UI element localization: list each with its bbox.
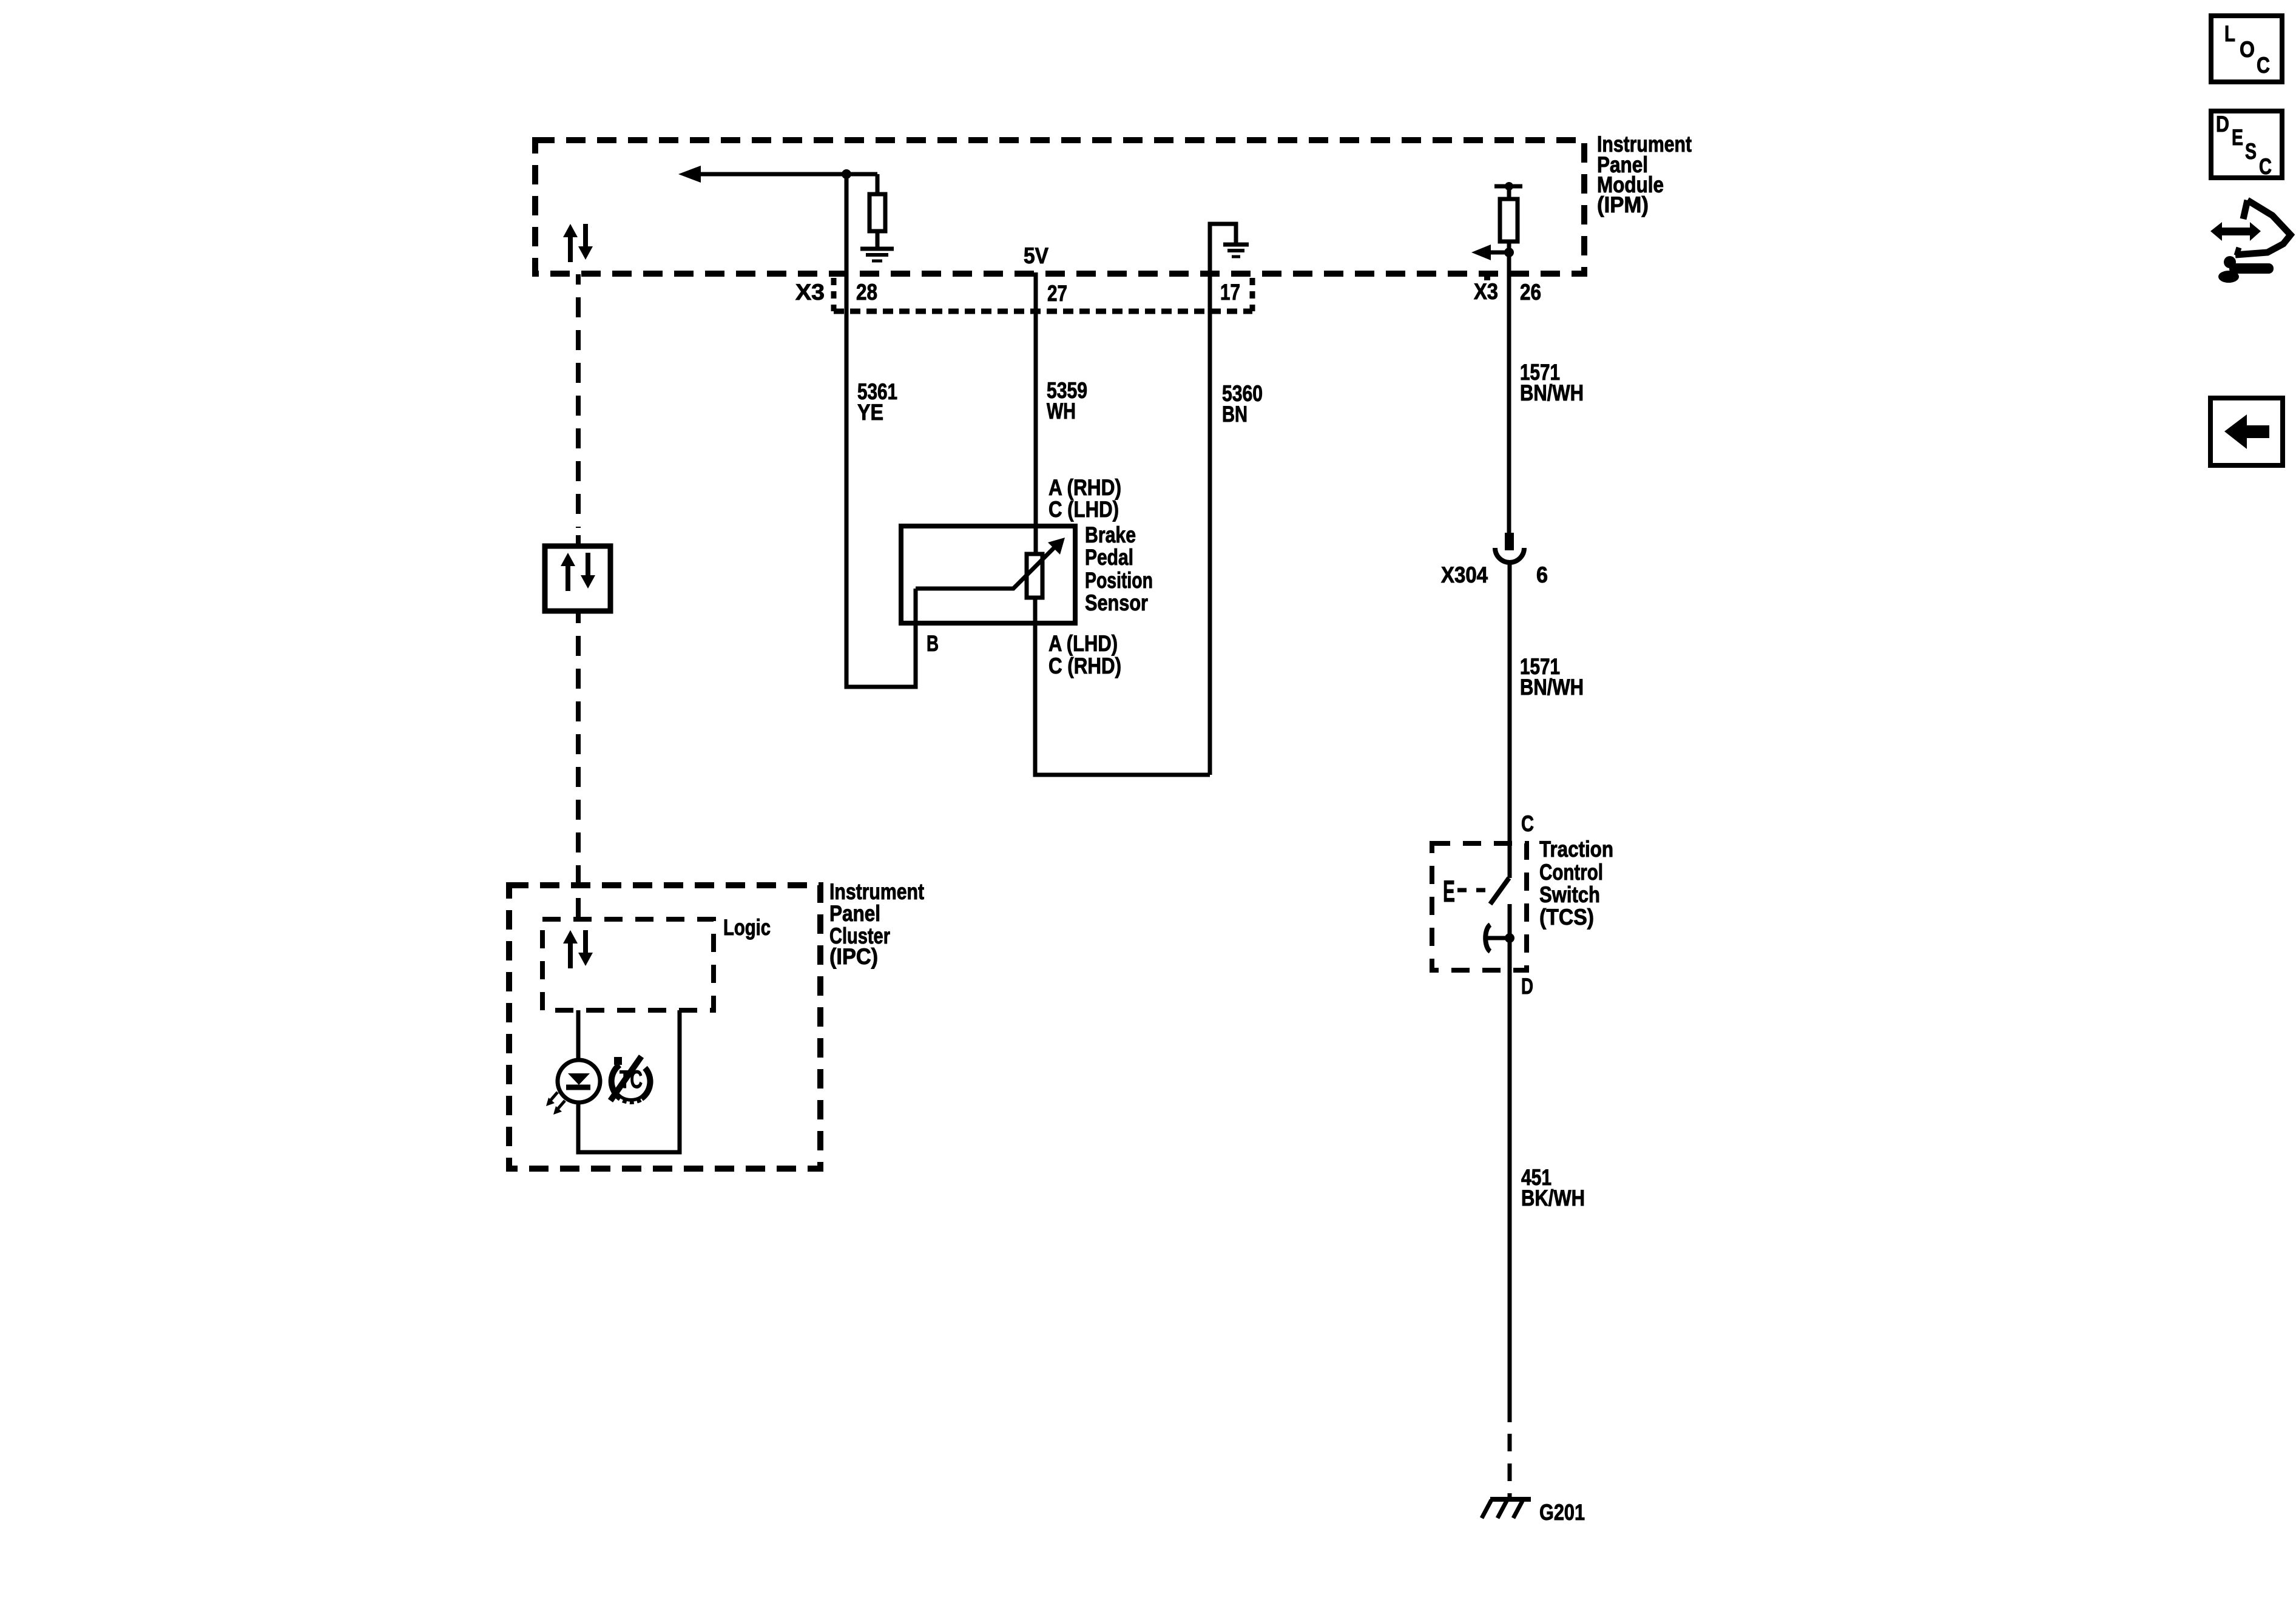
LED indicator circle <box>558 1060 600 1102</box>
ground: IPM internal ground at pin 17 <box>1223 245 1249 257</box>
label: Brake Pedal Position Sensor <box>1085 522 1153 615</box>
svg-text:BN: BN <box>1222 402 1248 427</box>
wire: pin 28 internal node horizontal <box>698 172 877 177</box>
svg-text:6: 6 <box>1536 562 1548 587</box>
wire from switch to D pin <box>1508 904 1512 1422</box>
component box: Traction Control Switch (dashed) <box>1432 843 1527 970</box>
wire from sensor low pin to 5360 <box>1035 623 1210 775</box>
resistor: IPM pull-up at pin 28 <box>869 174 885 248</box>
in-line connector X304 terminal 6 <box>1495 533 1524 562</box>
svg-text:D: D <box>2216 112 2229 137</box>
label: wire 451 BK/WH <box>1521 1165 1585 1210</box>
svg-text:X304: X304 <box>1441 562 1488 587</box>
label: pin A (LHD) / C (RHD) <box>1048 631 1121 678</box>
svg-text:(TCS): (TCS) <box>1539 905 1594 930</box>
wire 5360 pin 17 to sensor low reference <box>1210 224 1236 775</box>
svg-text:17: 17 <box>1220 280 1240 305</box>
svg-text:YE: YE <box>857 400 883 425</box>
component box: Brake Pedal Position Sensor <box>901 526 1075 623</box>
ground G201 chassis symbol <box>1482 1499 1531 1518</box>
svg-text:WH: WH <box>1047 399 1076 424</box>
icon: DESC box <box>2211 111 2282 179</box>
svg-text:TC: TC <box>620 1065 643 1093</box>
wire from potentiometer to sensor output pin <box>1033 598 1038 623</box>
dashed serial data wire IPM to data box <box>576 274 581 528</box>
dashed serial data wire data box to IPC <box>576 612 581 918</box>
wire logic to LED <box>576 1010 581 1062</box>
svg-text:26: 26 <box>1520 280 1541 305</box>
svg-text:A (LHD): A (LHD) <box>1048 631 1118 656</box>
label: pin A (RHD) / C (LHD) <box>1048 475 1121 522</box>
label: wire 1571 BN/WH upper <box>1520 360 1584 405</box>
svg-text:C (LHD): C (LHD) <box>1048 497 1119 522</box>
svg-text:Panel: Panel <box>829 901 880 926</box>
label: wire 5360 BN <box>1222 381 1263 427</box>
logic box inside IPC <box>542 919 714 1010</box>
svg-text:X3: X3 <box>1474 279 1498 304</box>
junction dot at pin 28 node <box>842 169 851 179</box>
svg-text:Switch: Switch <box>1539 882 1600 907</box>
LED diode triangle <box>568 1073 590 1085</box>
label: Instrument Panel Module (IPM) <box>1597 132 1692 217</box>
svg-text:D: D <box>1521 974 1533 999</box>
svg-text:C: C <box>2259 154 2272 179</box>
svg-text:5V: 5V <box>1024 243 1048 268</box>
svg-text:G201: G201 <box>1539 1500 1585 1525</box>
connector X3 dotted boundary (pins 28/27/17) <box>834 278 1252 311</box>
label: Traction Control Switch (TCS) <box>1539 837 1613 930</box>
junction dot at pin 26 node <box>1504 248 1514 257</box>
serial data bidirectional arrows inside IPM <box>563 224 593 262</box>
switch blade <box>1490 878 1509 904</box>
svg-text:O: O <box>2240 37 2255 62</box>
svg-text:BK/WH: BK/WH <box>1521 1186 1585 1210</box>
momentary detent hook <box>1485 925 1490 951</box>
svg-text:C: C <box>2257 53 2270 78</box>
serial data box on class-2 line <box>545 546 610 611</box>
connector bracket at pin 26 <box>1484 276 1490 280</box>
wire LED return path <box>578 1010 680 1152</box>
icon: back arrow box <box>2210 398 2283 465</box>
label: wire 5361 YE <box>857 379 897 425</box>
svg-text:Instrument: Instrument <box>829 879 924 904</box>
svg-text:S: S <box>2245 139 2257 164</box>
TC off telltale icon <box>610 1056 650 1103</box>
dashed wire to ground G201 <box>1508 1434 1512 1499</box>
svg-text:Sensor: Sensor <box>1085 590 1148 615</box>
signal arrow at pin 26 (points left) <box>1487 251 1510 255</box>
node tick at top of pin 26 resistor <box>1494 184 1522 189</box>
wiper arm with arrow <box>916 546 1056 589</box>
label: wire 5359 WH <box>1047 378 1087 424</box>
wire 1571 BN/WH upper segment <box>1507 252 1511 535</box>
junction dot in TCS <box>1505 933 1514 943</box>
icon: harness jump with wrench <box>2210 200 2291 283</box>
module box: Instrument Panel Module (IPM) <box>535 140 1584 274</box>
svg-text:E: E <box>1443 874 1455 908</box>
icon: LOC box <box>2211 16 2282 82</box>
wire 5359 from 5V pin 27 to sensor <box>1034 272 1038 554</box>
svg-text:(IPC): (IPC) <box>829 944 878 969</box>
label: wire 1571 BN/WH lower <box>1520 654 1584 700</box>
wire 5361 from pin 28 to sensor pin B <box>846 174 916 687</box>
module box: Instrument Panel Cluster (IPC) <box>509 885 820 1169</box>
svg-text:BN/WH: BN/WH <box>1520 675 1584 700</box>
signal arrow at pin 28 (points left) <box>678 166 701 183</box>
svg-text:Position: Position <box>1085 568 1153 593</box>
LED emission arrows <box>546 1092 565 1115</box>
svg-text:A (RHD): A (RHD) <box>1048 475 1121 500</box>
potentiometer element in sensor <box>1027 554 1042 598</box>
svg-text:Logic: Logic <box>723 915 771 940</box>
svg-text:L: L <box>2224 21 2235 46</box>
svg-text:Pedal: Pedal <box>1085 545 1133 570</box>
ground: IPM internal ground below pin-28 resistor <box>860 249 894 261</box>
svg-text:C (RHD): C (RHD) <box>1048 653 1121 678</box>
LED cathode bar <box>566 1085 590 1090</box>
serial data arrows inside logic box <box>563 930 593 968</box>
svg-text:Traction: Traction <box>1539 837 1613 862</box>
svg-text:B: B <box>927 631 939 656</box>
svg-text:Brake: Brake <box>1085 522 1136 547</box>
svg-text:X3: X3 <box>795 280 825 305</box>
wire 1571 BN/WH lower segment <box>1508 564 1512 878</box>
svg-text:C: C <box>1521 811 1534 836</box>
svg-text:E: E <box>2232 125 2243 150</box>
svg-text:27: 27 <box>1047 281 1067 306</box>
label: Instrument Panel Cluster (IPC) <box>829 879 924 969</box>
svg-text:28: 28 <box>856 280 877 305</box>
svg-text:BN/WH: BN/WH <box>1520 380 1584 405</box>
svg-text:Control: Control <box>1539 860 1603 885</box>
resistor: IPM at pin 26 <box>1500 186 1518 252</box>
svg-text:(IPM): (IPM) <box>1597 192 1649 217</box>
